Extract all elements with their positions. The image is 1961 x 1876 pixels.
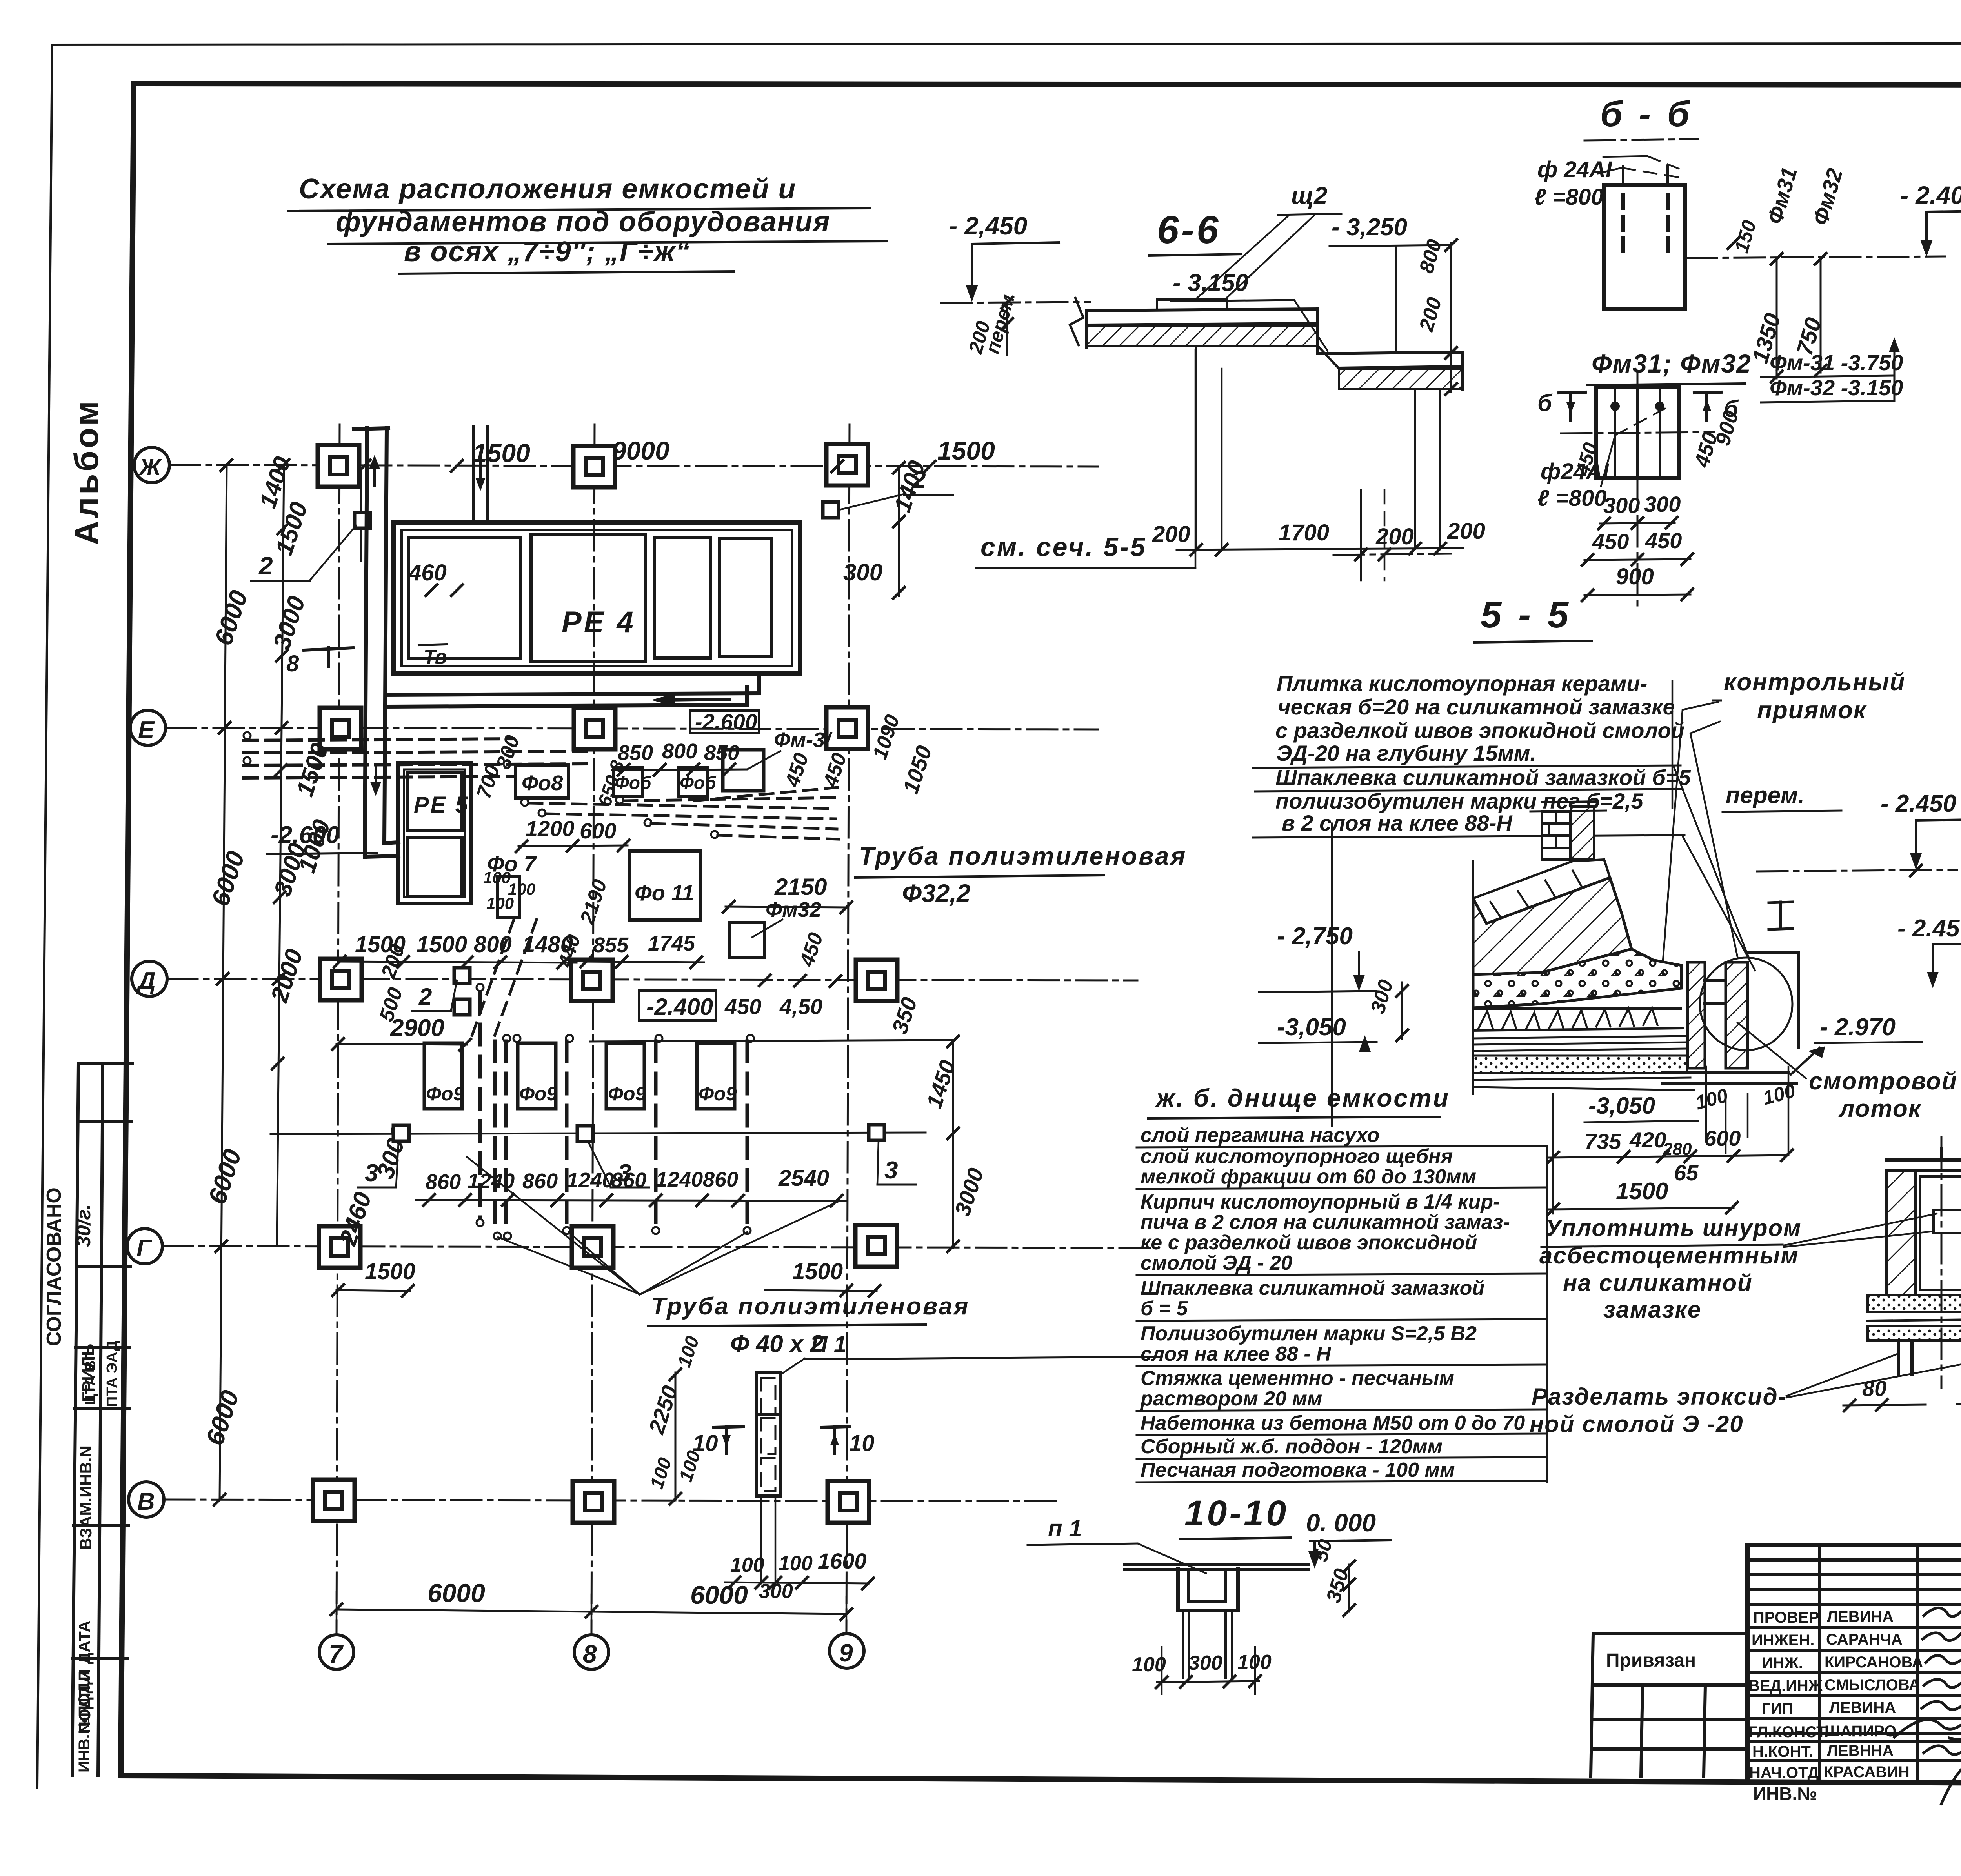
svg-text:6-6: 6-6 (1157, 208, 1221, 252)
svg-text:перем.: перем. (1726, 782, 1805, 808)
svg-text:65: 65 (1674, 1160, 1699, 1185)
svg-text:- 2.970: - 2.970 (1820, 1014, 1896, 1041)
svg-text:СМЫСЛОВА: СМЫСЛОВА (1825, 1676, 1920, 1694)
top dimension row 1500 9000 1500 (358, 459, 371, 472)
svg-text:ИНЖЕН.: ИНЖЕН. (1752, 1632, 1814, 1649)
axis Д (167, 979, 1137, 980)
right vertical dims 1450 3000 (952, 1040, 954, 1248)
svg-text:Фо9: Фо9 (699, 1083, 737, 1105)
svg-text:Ф32,2: Ф32,2 (902, 879, 971, 907)
svg-text:Разделать эпоксид-: Разделать эпоксид- (1532, 1383, 1787, 1410)
svg-text:450: 450 (1592, 529, 1629, 554)
svg-text:Ф 40 х 2: Ф 40 х 2 (730, 1331, 824, 1358)
svg-text:860: 860 (522, 1169, 558, 1193)
svg-text:НАЧ.ОТД: НАЧ.ОТД (1749, 1764, 1819, 1781)
vertical trench channel (365, 428, 367, 857)
svg-text:100: 100 (486, 894, 514, 913)
svg-text:ГИП: ГИП (1762, 1700, 1793, 1717)
svg-text:смолой ЭД - 20: смолой ЭД - 20 (1141, 1252, 1292, 1274)
svg-text:Фо 11: Фо 11 (635, 880, 694, 905)
svg-text:Уплотнить шнуром: Уплотнить шнуром (1545, 1215, 1802, 1241)
svg-text:735: 735 (1584, 1129, 1621, 1154)
svg-text:8: 8 (583, 1640, 597, 1668)
foundation Фм31 (solid square) (723, 750, 764, 791)
svg-text:Фо9: Фо9 (426, 1083, 464, 1105)
svg-text:2150: 2150 (774, 874, 827, 900)
svg-text:ПТА ЭАД: ПТА ЭАД (104, 1341, 120, 1407)
svg-text:30/г.: 30/г. (73, 1204, 95, 1247)
svg-text:Альбом: Альбом (68, 398, 106, 545)
svg-text:1500: 1500 (417, 932, 467, 957)
svg-text:450: 450 (724, 994, 761, 1019)
svg-text:1240: 1240 (656, 1168, 703, 1191)
column footings grid (318, 445, 359, 487)
svg-text:п 1: п 1 (1048, 1515, 1082, 1542)
-2.600 boxed level (690, 711, 759, 733)
svg-text:САРАНЧА: САРАНЧА (1826, 1631, 1903, 1648)
svg-text:- 3,150: - 3,150 (1173, 269, 1248, 296)
svg-text:пича в 2 слоя на силикатной: пича в 2 слоя на силикатной замаз- (1141, 1211, 1510, 1234)
svg-text:РЕ 4: РЕ 4 (562, 605, 636, 639)
svg-text:Труба полиэтиленовая: Труба полиэтиленовая (651, 1293, 970, 1320)
svg-text:ЦТА ВГ: ЦТА ВГ (82, 1352, 99, 1405)
svg-text:ПРОВЕР.: ПРОВЕР. (1753, 1609, 1821, 1626)
svg-text:6000: 6000 (690, 1580, 748, 1609)
svg-text:10: 10 (693, 1431, 718, 1456)
svg-text:слоя на клее 88 - Н: слоя на клее 88 - Н (1141, 1343, 1332, 1365)
svg-text:РЕ 5: РЕ 5 (414, 792, 469, 818)
svg-text:Фм31; Фм32: Фм31; Фм32 (1592, 349, 1752, 378)
svg-text:П 1: П 1 (811, 1332, 846, 1357)
tank PE4 outer (394, 522, 800, 674)
svg-text:Кирпич кислотоупорный в 1/4: Кирпич кислотоупорный в 1/4 кир- (1141, 1191, 1500, 1213)
svg-text:600: 600 (580, 818, 616, 843)
svg-text:860: 860 (426, 1170, 461, 1194)
svg-text:-2.600: -2.600 (695, 709, 757, 734)
svg-text:ШАПИРО: ШАПИРО (1825, 1723, 1896, 1740)
svg-text:ке с разделкой швов эпокси: ке с разделкой швов эпоксидной (1141, 1231, 1477, 1254)
svg-text:850: 850 (618, 741, 653, 765)
left slab of 6-6 (1086, 309, 1318, 311)
svg-text:Е: Е (138, 716, 155, 743)
secondary left chain (277, 465, 284, 1246)
svg-text:- 3,250: - 3,250 (1332, 214, 1407, 241)
callout 2 with small anchor squares top (355, 513, 370, 528)
svg-text:Фм-31 -3.750: Фм-31 -3.750 (1770, 350, 1903, 375)
svg-text:с разделкой швов эпокидной смо: с разделкой швов эпокидной смолой (1275, 718, 1684, 743)
svg-text:3: 3 (365, 1160, 378, 1187)
svg-text:7: 7 (329, 1640, 344, 1668)
concrete wedge with speckle (1473, 949, 1681, 1008)
svg-text:1200: 1200 (526, 816, 575, 841)
svg-text:- 2.450: - 2.450 (1897, 915, 1961, 942)
svg-text:2: 2 (418, 983, 432, 1010)
svg-text:2540: 2540 (778, 1165, 829, 1191)
svg-text:8: 8 (286, 651, 299, 676)
svg-text:в осях „7÷9″; „Г÷ж“: в осях „7÷9″; „Г÷ж“ (404, 236, 691, 267)
svg-text:2900: 2900 (390, 1014, 444, 1042)
bottom dims 200 1700 200 (1195, 346, 1197, 549)
svg-text:слой кислотоупорного щебня: слой кислотоупорного щебня (1141, 1145, 1453, 1168)
svg-text:850: 850 (704, 741, 739, 765)
svg-text:на силикатной: на силикатной (1563, 1270, 1753, 1296)
triangles strip (1473, 1007, 1681, 1010)
axis 8 (591, 424, 595, 1633)
svg-text:6000: 6000 (427, 1578, 485, 1607)
axis Г (162, 1246, 1157, 1248)
svg-text:- 2.450: - 2.450 (1881, 790, 1956, 817)
svg-text:Фм32: Фм32 (766, 898, 821, 922)
svg-text:в 2 слоя на клее 88-Н: в 2 слоя на клее 88-Н (1282, 811, 1513, 835)
svg-text:Набетонка из бетона М50 от: Набетонка из бетона М50 от 0 до 70 (1141, 1412, 1525, 1434)
svg-text:б: б (1537, 390, 1553, 416)
svg-text:1500: 1500 (1616, 1178, 1668, 1204)
svg-text:контрольный: контрольный (1724, 669, 1905, 696)
axis 7 (337, 424, 340, 1633)
dash level and -2.400 (1686, 256, 1945, 258)
svg-text:ческая б=20 на силикатной зама: ческая б=20 на силикатной замазке (1278, 694, 1675, 719)
annex table left of title block (1591, 1634, 1747, 1776)
foundations Фо6 (613, 767, 642, 796)
svg-text:420: 420 (1629, 1127, 1666, 1152)
upper boundary line of Фо9 area (590, 1040, 953, 1042)
svg-text:300: 300 (1603, 493, 1640, 518)
svg-text:ж. б. днище емкости: ж. б. днище емкости (1155, 1084, 1450, 1112)
foundation Фо8 (516, 765, 569, 798)
svg-text:приямок: приямок (1757, 697, 1867, 724)
svg-text:1745: 1745 (648, 932, 695, 955)
svg-text:ℓ =800: ℓ =800 (1534, 184, 1604, 210)
svg-text:ф 24АI: ф 24АI (1537, 157, 1613, 182)
svg-text:лоток: лоток (1838, 1095, 1922, 1122)
svg-text:Полиизобутилен марки S=2,5: Полиизобутилен марки S=2,5 В2 (1141, 1322, 1477, 1345)
svg-text:450: 450 (1645, 528, 1682, 553)
svg-text:мелкой фракции от 60 до 130м: мелкой фракции от 60 до 130мм (1141, 1165, 1476, 1188)
svg-text:100: 100 (779, 1552, 813, 1575)
axis Ж (169, 465, 1098, 467)
hatched wedge (1473, 878, 1632, 974)
svg-text:ВЗАМ.ИНВ.N: ВЗАМ.ИНВ.N (76, 1445, 95, 1550)
axis 9 (846, 424, 850, 1633)
bottom dimension 6000 / 6000 (337, 1609, 846, 1614)
svg-text:Плитка кислотоупорная керами-: Плитка кислотоупорная керами- (1277, 671, 1647, 696)
dashed pipe fan upper (529, 787, 839, 839)
svg-text:-3,050: -3,050 (1277, 1014, 1346, 1041)
brick pillar (1542, 811, 1570, 860)
svg-text:2: 2 (911, 465, 926, 494)
dashed pipe risers vertical (480, 992, 747, 1231)
svg-text:Песчаная подготовка - 100 мм: Песчаная подготовка - 100 мм (1141, 1459, 1455, 1482)
svg-text:855: 855 (593, 933, 629, 957)
signatures (1894, 1604, 1961, 1804)
svg-text:КРАСАВИН: КРАСАВИН (1824, 1763, 1910, 1781)
foundations Фо9 x4 (424, 1043, 462, 1109)
element П1 (756, 1373, 780, 1496)
svg-text:Г: Г (136, 1235, 153, 1262)
svg-text:200: 200 (1447, 518, 1485, 544)
svg-text:2: 2 (258, 552, 273, 580)
svg-text:Шпаклевка силикатной замазко: Шпаклевка силикатной замазкой (1141, 1277, 1484, 1300)
level -2.400 boxed (639, 991, 716, 1020)
pipe label Труба Ф40х2 (467, 1157, 639, 1294)
sheet outer trim border (52, 43, 1961, 45)
dim 1400 left of axis7 top (360, 471, 362, 561)
svg-text:4,50: 4,50 (779, 994, 822, 1019)
svg-text:- 2,450: - 2,450 (949, 212, 1027, 240)
svg-text:1500: 1500 (365, 1259, 415, 1284)
svg-text:ГЛ.КОНСТ.: ГЛ.КОНСТ. (1748, 1723, 1828, 1741)
б-б pier body (1604, 185, 1685, 309)
svg-text:Ж: Ж (138, 454, 162, 480)
svg-text:ЛЕВИНА: ЛЕВИНА (1829, 1699, 1896, 1716)
svg-text:Труба полиэтиленовая: Труба полиэтиленовая (859, 842, 1187, 870)
dim 1400/300 right of axis9 top (898, 467, 900, 596)
svg-text:Шпаклевка силикатной замазкой: Шпаклевка силикатной замазкой б=5 (1275, 765, 1691, 790)
svg-text:замазке: замазке (1603, 1296, 1701, 1323)
svg-text:Схема расположения емкостей: Схема расположения емкостей и (299, 173, 796, 205)
svg-text:В: В (137, 1488, 155, 1515)
axis В (164, 1500, 1059, 1501)
svg-text:Фоб: Фоб (680, 773, 717, 793)
svg-text:200: 200 (1375, 524, 1414, 549)
dashed pipe rows left (244, 739, 588, 778)
svg-text:1600: 1600 (818, 1549, 867, 1573)
svg-text:10: 10 (849, 1431, 875, 1456)
svg-text:Фм-32 -3.150: Фм-32 -3.150 (1770, 375, 1903, 400)
svg-text:слой пергамина насухо: слой пергамина насухо (1141, 1124, 1380, 1147)
svg-text:ВЕД.ИНЖ: ВЕД.ИНЖ (1748, 1677, 1823, 1694)
main thick frame (134, 84, 1961, 85)
svg-text:9000: 9000 (612, 436, 669, 465)
П1 dims (675, 1372, 677, 1500)
svg-text:9: 9 (839, 1639, 853, 1667)
svg-text:800: 800 (662, 740, 697, 763)
step down to right slab (1316, 309, 1319, 354)
axis Е (166, 728, 1098, 729)
svg-text:Тв: Тв (424, 646, 447, 668)
svg-text:600: 600 (1704, 1126, 1741, 1151)
svg-text:ИНЖ.: ИНЖ. (1762, 1654, 1803, 1672)
svg-text:200: 200 (1152, 522, 1190, 547)
П1 bottom dims (760, 1496, 762, 1582)
svg-text:ИНВ.№ПОДЛ: ИНВ.№ПОДЛ (76, 1671, 93, 1772)
svg-text:щ2: щ2 (1291, 182, 1327, 209)
svg-text:460: 460 (408, 560, 447, 585)
svg-text:1240: 1240 (567, 1169, 614, 1192)
svg-text:Н.КОНТ.: Н.КОНТ. (1752, 1743, 1813, 1760)
svg-text:смотровой: смотровой (1809, 1068, 1957, 1095)
svg-text:1500: 1500 (937, 436, 995, 465)
svg-text:Фо8: Фо8 (522, 771, 563, 795)
membrane layers (1473, 1036, 1686, 1038)
svg-text:3: 3 (884, 1157, 898, 1184)
svg-text:Фм-3/: Фм-3/ (774, 728, 833, 752)
left dim chain 6000s (220, 465, 227, 1500)
svg-text:- 2.400: - 2.400 (1900, 181, 1961, 209)
channel right (смотровой лоток) (1688, 962, 1705, 1068)
svg-text:ИНВ.№: ИНВ.№ (1753, 1783, 1817, 1804)
svg-text:Фо9: Фо9 (519, 1083, 558, 1105)
svg-text:раствором 20 мм: раствором 20 мм (1140, 1387, 1322, 1410)
svg-text:см. сеч. 5-5: см. сеч. 5-5 (980, 532, 1147, 562)
svg-text:1480: 1480 (522, 932, 573, 957)
svg-text:фундаментов под оборудования: фундаментов под оборудования (336, 206, 830, 238)
svg-text:ной смолой Э -20: ной смолой Э -20 (1530, 1411, 1744, 1437)
svg-text:5 - 5: 5 - 5 (1481, 594, 1572, 636)
svg-text:1500: 1500 (792, 1259, 843, 1284)
svg-text:Стяжка цементно - песчаным: Стяжка цементно - песчаным (1141, 1367, 1454, 1390)
svg-text:860: 860 (703, 1168, 738, 1191)
svg-text:ЛЕВИНА: ЛЕВИНА (1827, 1608, 1894, 1625)
svg-text:-2.400: -2.400 (646, 994, 713, 1020)
svg-text:860: 860 (611, 1169, 646, 1192)
svg-text:- 2,750: - 2,750 (1277, 923, 1353, 950)
tank PE5 (398, 763, 471, 903)
svg-text:300: 300 (1644, 492, 1681, 516)
svg-text:асбестоцементным: асбестоцементным (1539, 1242, 1799, 1269)
svg-text:-2.600: -2.600 (271, 822, 340, 849)
callout 2 anchors mid (454, 968, 470, 983)
svg-text:0. 000: 0. 000 (1306, 1509, 1376, 1537)
svg-text:300: 300 (843, 559, 882, 585)
svg-text:б = 5: б = 5 (1141, 1297, 1188, 1320)
horizontal trench channel (387, 693, 759, 695)
vertical dims 1350 750 (1776, 258, 1778, 378)
svg-text:Фо9: Фо9 (608, 1083, 646, 1105)
svg-text:Привязан: Привязан (1606, 1650, 1696, 1671)
svg-text:Сборный ж.б. поддон - 120м: Сборный ж.б. поддон - 120мм (1141, 1435, 1443, 1458)
edge line between Д and Г with anchor squares 3 (271, 1133, 926, 1134)
svg-text:-3,050: -3,050 (1588, 1093, 1655, 1119)
svg-text:ЭД-20 на глубину 15мм.: ЭД-20 на глубину 15мм. (1276, 741, 1536, 765)
svg-text:КИРСАНОВА: КИРСАНОВА (1825, 1654, 1923, 1671)
foundation Фо11 plan (629, 851, 700, 920)
svg-text:СОГЛАСОВАНО: СОГЛАСОВАНО (43, 1187, 65, 1346)
svg-text:300: 300 (1188, 1652, 1222, 1674)
PE4 cells (409, 537, 521, 659)
svg-text:б - б: б - б (1600, 94, 1693, 134)
svg-text:Фо 7: Фо 7 (487, 851, 537, 876)
left margin stamp strip (72, 1063, 132, 1776)
svg-text:100: 100 (730, 1554, 764, 1576)
svg-text:1700: 1700 (1279, 520, 1329, 545)
svg-text:10-10: 10-10 (1184, 1493, 1288, 1533)
svg-text:ЛЕВННА: ЛЕВННА (1827, 1742, 1894, 1760)
svg-text:Д: Д (136, 967, 156, 994)
inlet pipe pair to tank (472, 427, 475, 523)
svg-text:900: 900 (1616, 564, 1654, 589)
svg-text:ℓ =800: ℓ =800 (1537, 485, 1607, 511)
sloped brick band (1473, 860, 1610, 923)
